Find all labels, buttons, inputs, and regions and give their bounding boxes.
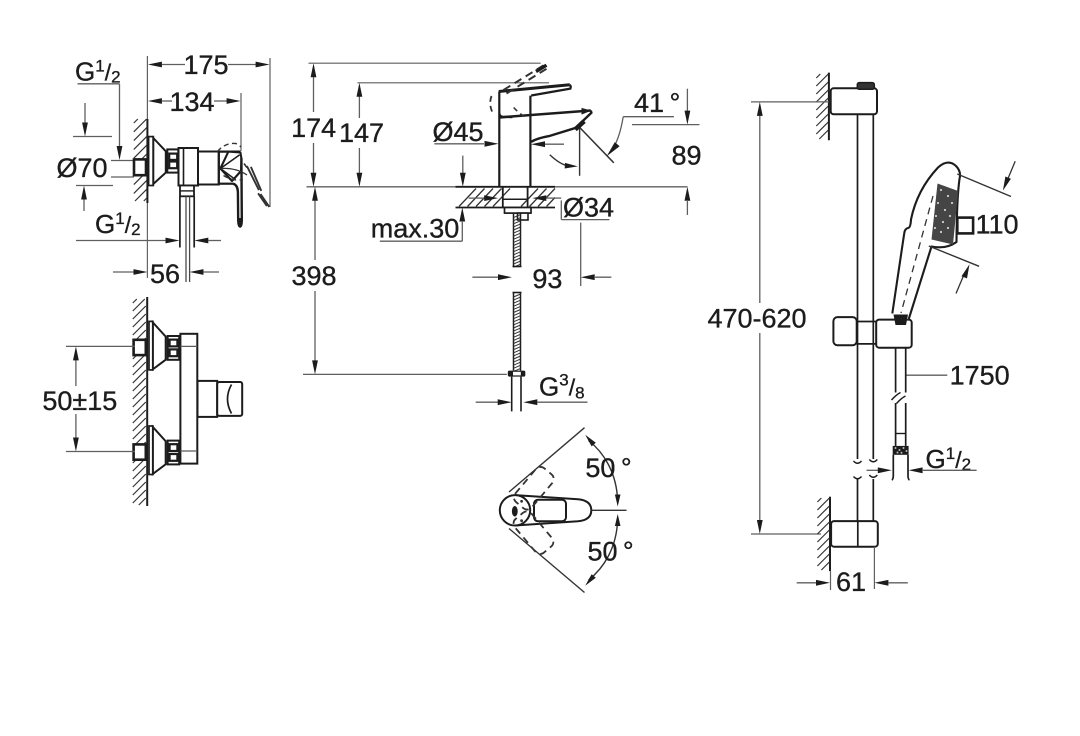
square symbol 110 [957, 218, 973, 234]
shower rail [857, 114, 859, 459]
dim 50±15 line+arrows [75, 358, 77, 386]
counter line [307, 186, 688, 188]
leader 41° [623, 116, 674, 118]
shower hose upper [895, 348, 897, 393]
faucet top / spout top edge [499, 111, 591, 118]
bottom escutcheon [831, 521, 878, 547]
svg-text:1750: 1750 [950, 361, 1010, 391]
faucet column right edge [529, 96, 531, 187]
dim Ø70 lower arrow [83, 198, 85, 211]
hose knurled nut [893, 446, 909, 455]
hose break marks [892, 393, 906, 404]
lever tip+bottom edge [531, 85, 571, 96]
outlet pipe inner [185, 196, 187, 282]
dimension 470-620 [759, 114, 761, 303]
svg-text:470-620: 470-620 [707, 304, 806, 334]
rail break marks [854, 460, 878, 479]
leader G 1/2 lower [76, 240, 166, 242]
50° lower ray [509, 529, 585, 593]
svg-text:41 °: 41 ° [634, 88, 680, 118]
water stream line [578, 126, 614, 163]
svg-text:Ø45: Ø45 [432, 117, 483, 147]
shower hose lower [895, 403, 897, 446]
dimension 93 [472, 276, 498, 278]
outlet pipe outer [179, 196, 181, 247]
svg-text:147: 147 [339, 118, 384, 148]
leader Ø45 [434, 143, 484, 145]
svg-text:50 °: 50 ° [587, 537, 633, 567]
top view capsule body [515, 495, 591, 525]
svg-text:Ø70: Ø70 [56, 153, 107, 183]
hand shower outline [892, 163, 960, 320]
vertical ref line at aerator [579, 127, 581, 176]
spout tip fill [582, 108, 592, 115]
dashed raised lever [504, 65, 546, 91]
svg-text:50±15: 50±15 [42, 386, 117, 416]
supply hose braided upper [513, 213, 515, 266]
underline max.30 [380, 240, 463, 242]
ext line 61 left [830, 571, 832, 590]
svg-text:134: 134 [169, 87, 214, 117]
lower mounting nut [168, 441, 180, 465]
dashed raised lever back arc [490, 96, 492, 113]
face dim arrow lower [956, 277, 963, 294]
dashed lever rotated up [511, 464, 556, 512]
ext line 398 bottom [303, 373, 507, 375]
Ø34 frame lines [560, 200, 562, 219]
dim 50±15 ext lines [66, 345, 135, 347]
svg-text:Ø34: Ø34 [563, 193, 614, 223]
ext line 89 [632, 124, 700, 126]
face dim arrow upper [1008, 161, 1015, 178]
lower rosette base disc [149, 426, 153, 475]
top escutcheon [831, 88, 877, 114]
extension line 134 right [240, 93, 242, 151]
lever back bottom [499, 113, 512, 117]
handle dashed arc lower [224, 176, 244, 181]
spout tip and underside [531, 111, 591, 142]
dimension 134 line+arrows [162, 100, 172, 102]
top view small dots [520, 500, 523, 503]
svg-text:174: 174 [291, 113, 336, 143]
hand shower dashed centerline [901, 196, 933, 313]
top view dark oval [512, 506, 518, 517]
handle swing arc [220, 168, 247, 175]
svg-text:56: 56 [150, 259, 180, 289]
svg-text:max.30: max.30 [371, 214, 460, 244]
dim Ø70 lower tick [76, 185, 113, 187]
slider knob [833, 317, 856, 345]
upper inlet square [134, 340, 146, 355]
dim G 3/8 arrows [476, 401, 498, 403]
hose end tube (right) [892, 455, 894, 480]
ext line 470-620 bottom [751, 533, 821, 535]
svg-text:61: 61 [836, 567, 866, 597]
ext line 470-620 top [751, 101, 829, 103]
shank below counter [502, 187, 504, 208]
dimension 175 line+arrows [162, 64, 185, 66]
shank flange [505, 208, 532, 214]
dimension 398 [314, 198, 316, 260]
slider crossbars [857, 321, 877, 323]
lever top edge [499, 85, 570, 92]
spout tube (front) [198, 381, 218, 417]
dimension 61 [797, 582, 817, 584]
extension line 175 right [269, 58, 271, 207]
mixer body section A [179, 148, 199, 186]
rosette base disc (top view) [149, 137, 154, 186]
svg-text:398: 398 [291, 261, 336, 291]
dim G 1/2 arrows (right) [867, 469, 879, 471]
upper mounting nut [168, 336, 180, 360]
handle blade [233, 158, 242, 227]
hose end fitting [508, 371, 526, 377]
spray angle arc [550, 155, 570, 166]
counter slab edges [456, 186, 556, 188]
dim Ø70 upper tick [73, 136, 112, 138]
top wall hatching [816, 74, 820, 78]
hose end tube [511, 377, 513, 412]
upper rosette base disc [149, 321, 153, 370]
top view lever rect [534, 500, 566, 522]
dimension 56 arrows [113, 271, 134, 273]
svg-text:93: 93 [532, 264, 562, 294]
handle head [220, 152, 241, 181]
ext line 61 right [873, 547, 875, 589]
upper rosette cone [153, 323, 166, 370]
outlet collar [180, 186, 194, 197]
wall hatching (left top view) [134, 119, 138, 123]
ext line 174 top [309, 62, 541, 64]
wall line (front view) [146, 297, 148, 506]
top wall line [828, 73, 830, 141]
rail top cap [857, 83, 874, 90]
counter hatching [459, 189, 476, 207]
slider body [876, 320, 912, 348]
horizontal axis line [592, 509, 627, 511]
inlet fitting square (top view) [134, 159, 146, 175]
lower rosette cone [153, 427, 166, 474]
dim Ø70 upper arrow [84, 103, 86, 124]
mixer body plate (front) [180, 334, 197, 464]
faucet column left edge [498, 92, 500, 187]
wall hatching (front view) [133, 299, 137, 303]
bottom wall line [829, 497, 831, 571]
dim max.30 lower arrow [459, 208, 465, 222]
ext line 147 top [357, 82, 549, 84]
dimension 89 [686, 89, 688, 111]
supply hose braided lower [513, 292, 522, 294]
handle motion slashes [247, 166, 259, 190]
leader 1750 [907, 374, 948, 376]
50° upper ray [509, 428, 585, 492]
rosette cone (top view) [153, 138, 166, 184]
dashed lever rotated down [511, 509, 556, 557]
dim Ø70 leader lines [111, 160, 134, 162]
wall line (left top view) [146, 56, 148, 119]
handle dashed mark right [244, 164, 248, 170]
handle dashed arc upper [218, 143, 242, 151]
svg-text:110: 110 [976, 210, 1019, 240]
spout cap (front) [217, 382, 242, 416]
svg-text:89: 89 [671, 141, 701, 171]
face tangent upper [957, 174, 1011, 197]
shank step block [518, 213, 529, 220]
dimension 147 [358, 95, 360, 118]
dashed swing arc at neck [514, 108, 526, 118]
lower inlet square [134, 444, 146, 459]
cartridge housing top/bottom [219, 151, 241, 153]
dimension 174 [313, 75, 315, 112]
svg-text:50 °: 50 ° [585, 453, 631, 483]
bottom wall hatching [817, 498, 821, 502]
mounting nut (top view) [167, 149, 178, 172]
leader G 1/2 top [78, 83, 120, 85]
top view pivot circle [500, 495, 530, 525]
facing arrow right of Ø45 [531, 141, 545, 147]
mixer body section B [198, 152, 219, 185]
face tangent lower [929, 246, 979, 266]
hand shower handle cone [894, 315, 909, 326]
svg-text:175: 175 [183, 50, 228, 80]
counter hole facing arrows [469, 197, 485, 199]
hand shower face [932, 184, 959, 245]
50° lower arc [589, 521, 618, 581]
aerator detail [575, 121, 584, 129]
dim max.30 upper arrow [462, 156, 464, 174]
50° upper arc [589, 441, 618, 501]
